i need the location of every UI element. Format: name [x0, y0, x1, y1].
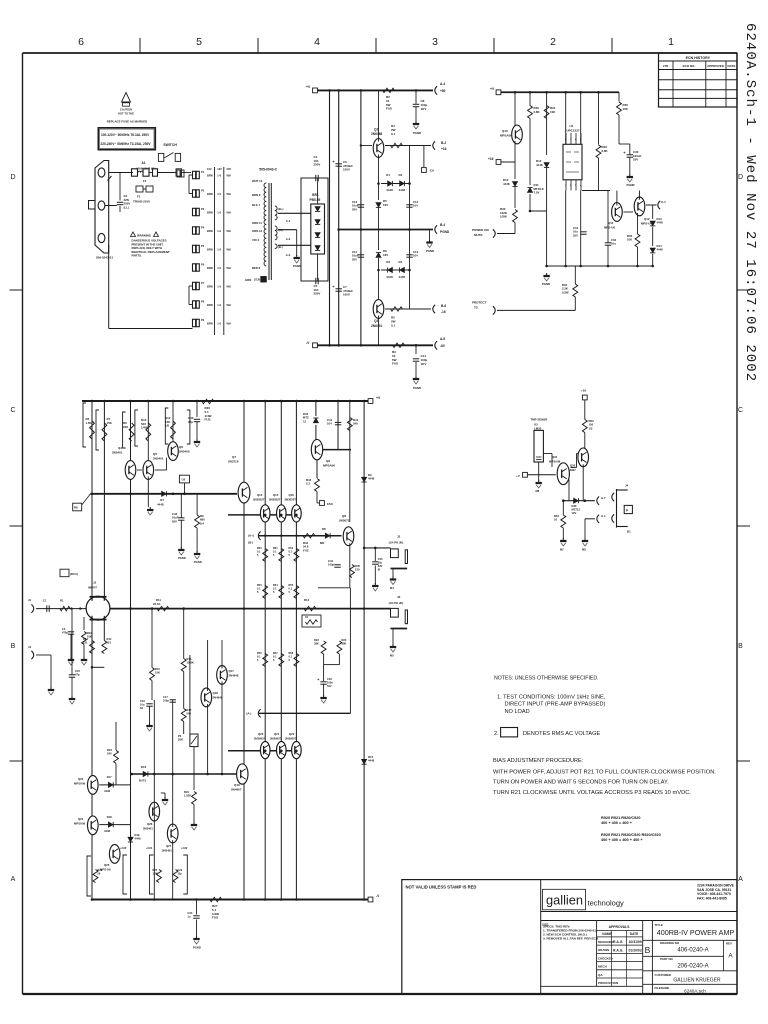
svg-text:TITLE: TITLE	[655, 923, 663, 927]
svg-text:WH: WH	[227, 322, 231, 326]
svg-text:2N4948: 2N4948	[229, 674, 239, 678]
svg-text:250V: 250V	[314, 163, 321, 167]
svg-text:D16: D16	[141, 765, 147, 769]
svg-text:M6: M6	[536, 489, 540, 493]
svg-text:BRN: BRN	[207, 229, 213, 233]
svg-text:+16: +16	[441, 147, 447, 151]
svg-text:1-0: 1-0	[217, 285, 221, 289]
svg-text:BRN: BRN	[207, 285, 213, 289]
svg-text:Q19: Q19	[234, 783, 240, 787]
svg-text:01/20/02: 01/20/02	[629, 948, 642, 952]
svg-text:APPROVALS: APPROVALS	[609, 925, 631, 929]
svg-text:A-7: A-7	[601, 496, 606, 500]
svg-text:R14: R14	[107, 637, 112, 641]
svg-text:M8: M8	[582, 548, 586, 552]
svg-text:R23: R23	[342, 638, 347, 642]
svg-text:D3: D3	[386, 260, 390, 264]
svg-text:1.5K: 1.5K	[86, 421, 93, 425]
svg-text:WH: WH	[227, 248, 231, 252]
svg-text:39K: 39K	[314, 642, 319, 646]
svg-text:R8: R8	[74, 506, 78, 510]
svg-text:4448: 4448	[399, 188, 406, 192]
svg-text:(B-): (B-)	[248, 541, 253, 545]
svg-text:(1/4 PH JK): (1/4 PH JK)	[389, 601, 404, 605]
svg-text:C24: C24	[187, 911, 192, 915]
svg-text:2.2: 2.2	[306, 482, 310, 486]
svg-text:100V: 100V	[343, 293, 350, 297]
svg-text:D18: D18	[107, 815, 112, 819]
svg-text:BRN: BRN	[207, 322, 213, 326]
svg-text:104: 104	[327, 422, 332, 426]
svg-text:400 + 400 = 400 +: 400 + 400 = 400 +	[601, 821, 633, 825]
svg-text:1u: 1u	[187, 915, 190, 919]
svg-text:A-6: A-6	[440, 337, 445, 341]
svg-text:MPSA06: MPSA06	[549, 460, 561, 464]
svg-text:2N3055T: 2N3055T	[285, 498, 297, 502]
svg-text:gallien: gallien	[546, 893, 583, 908]
svg-text:4448: 4448	[657, 221, 664, 225]
svg-text:M7: M7	[560, 548, 564, 552]
svg-text:WITH POWER OFF, ADJUST POT R21: WITH POWER OFF, ADJUST POT R21 TO FULL C…	[493, 769, 716, 775]
svg-text:BRN 9: BRN 9	[252, 193, 261, 197]
svg-text:1. TEST CONDITIONS: 100mV 1kH: 1. TEST CONDITIONS: 100mV 1kHz SINE,	[497, 694, 606, 700]
svg-text:Q9: Q9	[326, 459, 330, 463]
svg-text:10/31/99: 10/31/99	[629, 940, 642, 944]
svg-text:R21: R21	[184, 790, 189, 794]
svg-text:2N5401: 2N5401	[153, 457, 164, 461]
svg-text:(LL): (LL)	[124, 205, 129, 209]
svg-text:240: 240	[107, 752, 112, 756]
svg-text:1.2K: 1.2K	[153, 872, 158, 875]
svg-text:D7: D7	[160, 498, 164, 502]
svg-text:BRN: BRN	[207, 303, 213, 307]
svg-text:D1: D1	[386, 173, 390, 177]
svg-text:R.A.G.: R.A.G.	[613, 948, 623, 952]
svg-text:1KV: 1KV	[421, 107, 427, 111]
svg-text:4448: 4448	[386, 275, 393, 279]
svg-text:UPC1237: UPC1237	[567, 129, 580, 133]
svg-text:LTR: LTR	[663, 64, 669, 68]
svg-text:DATE: DATE	[630, 932, 638, 936]
svg-text:R1: R1	[60, 599, 64, 603]
svg-text:C9: C9	[430, 169, 434, 173]
svg-text:INPUT: INPUT	[88, 586, 97, 590]
svg-text:WH: WH	[227, 192, 231, 196]
svg-text:DIRECT INPUT (PRE-AMP BYPASSED: DIRECT INPUT (PRE-AMP BYPASSED)	[505, 702, 606, 708]
svg-text:R920 R921 R920/C920 R920: R920 R921 R920/C920 R920/C920	[601, 833, 661, 837]
svg-text:2N2955T: 2N2955T	[270, 737, 282, 741]
svg-text:+V: +V	[306, 85, 311, 89]
svg-text:POWER ON: POWER ON	[472, 228, 489, 232]
svg-text:DRAWN: DRAWN	[598, 948, 609, 952]
svg-text:WH: WH	[227, 174, 231, 178]
svg-text:P3: P3	[178, 734, 182, 738]
svg-text:4448: 4448	[157, 503, 164, 507]
svg-text:R920 R921 R920/C920: R920 R921 R920/C920	[601, 816, 640, 820]
svg-text:PART NO: PART NO	[660, 957, 674, 961]
svg-text:Q2: Q2	[374, 128, 378, 132]
svg-text:4448: 4448	[368, 759, 375, 763]
svg-text:P2: P2	[201, 189, 205, 193]
svg-text:Q23: Q23	[78, 777, 84, 781]
svg-text:+C22: +C22	[181, 846, 188, 850]
svg-text:4448: 4448	[104, 789, 110, 793]
svg-text:63V: 63V	[378, 564, 383, 568]
svg-text:400RB-IV POWER AMP: 400RB-IV POWER AMP	[657, 928, 735, 937]
svg-text:PGND: PGND	[440, 230, 450, 234]
svg-text:39K: 39K	[342, 642, 347, 646]
svg-text:MPSU06: MPSU06	[74, 782, 86, 786]
svg-text:P8: P8	[201, 300, 205, 304]
svg-text:500: 500	[187, 712, 192, 716]
svg-text:D: D	[10, 174, 15, 181]
svg-text:A: A	[738, 876, 743, 883]
svg-text:RED 8: RED 8	[252, 266, 261, 270]
svg-text:4448: 4448	[104, 829, 110, 833]
svg-text:WH: WH	[227, 211, 231, 215]
svg-text:25V: 25V	[633, 158, 638, 162]
svg-text:D2: D2	[399, 173, 403, 177]
svg-text:NO LOAD: NO LOAD	[505, 709, 530, 715]
svg-text:10: 10	[554, 518, 558, 522]
svg-text:R17: R17	[187, 708, 192, 712]
svg-text:15K: 15K	[107, 421, 113, 425]
svg-text:(1/4 PH JK): (1/4 PH JK)	[389, 541, 404, 545]
svg-text:A-3: A-3	[286, 253, 291, 257]
svg-text:APPROVED: APPROVED	[707, 64, 725, 68]
svg-text:0.1: 0.1	[391, 132, 396, 136]
svg-text:D17: D17	[107, 775, 112, 779]
svg-text:6240A.sch: 6240A.sch	[684, 988, 706, 993]
svg-text:1.52K: 1.52K	[184, 794, 191, 798]
svg-text:3. REMOVED ALL FAN REF. PER EC: 3. REMOVED ALL FAN REF. PER ECN	[543, 937, 599, 941]
svg-text:J4: J4	[625, 484, 629, 488]
svg-text:A-1: A-1	[601, 514, 606, 518]
svg-text:BRN: BRN	[207, 211, 213, 215]
svg-text:1KV: 1KV	[421, 362, 427, 366]
svg-text:B-2: B-2	[441, 141, 446, 145]
svg-text:47p: 47p	[75, 673, 80, 677]
svg-text:B: B	[645, 945, 651, 955]
svg-text:WH: WH	[227, 303, 231, 307]
svg-text:P6: P6	[201, 263, 205, 267]
svg-text:R16: R16	[187, 657, 192, 661]
svg-text:2N5400: 2N5400	[179, 450, 190, 454]
svg-text:BV73: BV73	[139, 779, 146, 783]
svg-text:2N3055T: 2N3055T	[253, 498, 265, 502]
svg-text:Q11: Q11	[608, 221, 614, 225]
svg-text:GRN: GRN	[245, 278, 251, 282]
svg-text:J1: J1	[28, 598, 32, 602]
svg-text:P9: P9	[201, 318, 205, 322]
svg-text:400 + 400 = 400 + 400 +: 400 + 400 = 400 + 400 +	[601, 838, 643, 842]
svg-text:100-120V~ 50/60Hz T6.3AL 250V: 100-120V~ 50/60Hz T6.3AL 250V	[101, 133, 150, 137]
svg-text:B1: B1	[627, 530, 631, 534]
svg-text:F: F	[626, 508, 628, 512]
svg-text:1-0: 1-0	[217, 229, 221, 233]
svg-text:U2: U2	[182, 478, 186, 482]
svg-text:TURN R21 CLOCKWISE UNTIL VOLTA: TURN R21 CLOCKWISE UNTIL VOLTAGE ACCROSS…	[493, 790, 691, 796]
svg-text:+V: +V	[376, 396, 381, 400]
svg-text:63V: 63V	[172, 519, 177, 523]
svg-text:4: 4	[314, 36, 320, 48]
svg-text:5: 5	[196, 36, 202, 48]
svg-text:C: C	[10, 407, 15, 414]
svg-text:16V: 16V	[383, 253, 388, 257]
svg-text:D8: D8	[322, 527, 326, 531]
svg-text:B-6: B-6	[441, 304, 446, 308]
svg-text:+C20: +C20	[120, 846, 127, 850]
svg-text:C17: C17	[163, 695, 168, 699]
svg-text:2: 2	[550, 36, 556, 48]
svg-text:10K: 10K	[550, 110, 556, 114]
svg-text:104: 104	[413, 254, 418, 258]
svg-text:REPLACE FUSE AS MARKED: REPLACE FUSE AS MARKED	[107, 120, 148, 124]
svg-text:Q21: Q21	[274, 732, 280, 736]
svg-text:R12: R12	[304, 598, 310, 602]
svg-text:PGND: PGND	[193, 946, 201, 950]
svg-text:GALLIEN KRUEGER: GALLIEN KRUEGER	[673, 978, 721, 984]
svg-text:4448: 4448	[536, 163, 543, 167]
svg-text:F1: F1	[143, 179, 147, 183]
svg-text:M4: M4	[390, 586, 394, 590]
svg-text:+80: +80	[440, 89, 446, 93]
svg-text:10: 10	[305, 615, 309, 619]
svg-text:R.A.G.: R.A.G.	[613, 940, 623, 944]
svg-text:HOT TO THE: HOT TO THE	[118, 112, 134, 116]
svg-text:REV: REV	[726, 942, 732, 946]
svg-text:1/4: 1/4	[200, 521, 204, 525]
svg-text:BRN: BRN	[207, 174, 213, 178]
svg-text:F1: F1	[137, 195, 141, 199]
svg-text:NAME: NAME	[602, 932, 611, 936]
svg-text:1/2: 1/2	[589, 426, 593, 430]
svg-text:PARTS.: PARTS.	[132, 254, 143, 258]
svg-text:3: 3	[432, 36, 438, 48]
svg-text:C16: C16	[140, 699, 145, 703]
svg-text:P7: P7	[201, 281, 205, 285]
svg-text:Q18: Q18	[213, 691, 219, 695]
svg-text:16V: 16V	[383, 203, 388, 207]
svg-text:PGND: PGND	[293, 264, 301, 268]
svg-text:SWITCH: SWITCH	[163, 143, 177, 147]
svg-text:U1: U1	[570, 124, 574, 128]
svg-text:PGND: PGND	[542, 282, 550, 286]
svg-text:SCN: SCN	[254, 278, 260, 282]
svg-text:6.8K: 6.8K	[534, 110, 541, 114]
svg-text:470p: 470p	[62, 631, 68, 635]
svg-text:12V: 12V	[217, 167, 222, 171]
svg-text:2N6491: 2N6491	[371, 324, 382, 328]
svg-text:6: 6	[78, 36, 84, 48]
svg-text:209-0243-01: 209-0243-01	[96, 256, 113, 260]
svg-text:WHT 10: WHT 10	[252, 179, 263, 183]
svg-text:DENOTES RMS AC VOLTAGE: DENOTES RMS AC VOLTAGE	[523, 731, 600, 737]
svg-text:+16: +16	[488, 157, 494, 161]
svg-text:206-0240-A: 206-0240-A	[677, 964, 708, 970]
svg-text:10u: 10u	[140, 703, 145, 707]
svg-text:2N5401: 2N5401	[143, 827, 153, 831]
svg-text:100p: 100p	[328, 563, 334, 567]
svg-text:PGND: PGND	[413, 386, 421, 390]
svg-text:6.8K: 6.8K	[602, 149, 609, 153]
svg-text:-(B+): -(B+)	[277, 207, 284, 211]
svg-text:0.1: 0.1	[391, 323, 396, 327]
svg-text:BRN: BRN	[207, 248, 213, 252]
svg-text:Q24: Q24	[78, 817, 84, 821]
svg-text:25K: 25K	[178, 738, 183, 742]
svg-text:PB5-05: PB5-05	[310, 198, 321, 202]
svg-text:D19: D19	[135, 833, 140, 837]
svg-text:4448: 4448	[399, 275, 406, 279]
svg-text:D30: D30	[572, 504, 577, 508]
svg-text:PRODUCTION: PRODUCTION	[598, 981, 618, 985]
svg-text:C1: C1	[43, 599, 47, 603]
svg-text:1-0: 1-0	[217, 192, 221, 196]
svg-text:Q6: Q6	[179, 445, 183, 449]
svg-text:Q5: Q5	[153, 452, 157, 456]
svg-text:M: M	[378, 568, 380, 572]
svg-text:221: 221	[83, 641, 88, 645]
svg-text:2N3716: 2N3716	[228, 460, 239, 464]
svg-text:Q7: Q7	[232, 455, 236, 459]
svg-text:P5: P5	[201, 244, 205, 248]
svg-text:Q8: Q8	[342, 514, 346, 518]
svg-text:Q30: Q30	[570, 464, 576, 468]
svg-text:505-0043-C: 505-0043-C	[259, 168, 277, 172]
svg-text:WARNING: WARNING	[137, 233, 152, 237]
svg-text:DATE: DATE	[728, 64, 736, 68]
svg-text:1: 1	[668, 36, 674, 48]
svg-text:1-0: 1-0	[217, 322, 221, 326]
svg-text:10u: 10u	[611, 242, 616, 246]
svg-text:Q17: Q17	[229, 669, 235, 673]
svg-text:MPSU56: MPSU56	[74, 822, 86, 826]
svg-text:Q27: Q27	[166, 844, 172, 848]
svg-text:B: B	[738, 643, 743, 650]
svg-text:Q4: Q4	[118, 446, 122, 450]
svg-text:10K: 10K	[627, 238, 632, 242]
svg-text:Q14: Q14	[257, 493, 263, 497]
svg-text:PGND: PGND	[426, 249, 434, 253]
svg-text:120: 120	[355, 568, 360, 572]
svg-text:FAN: FAN	[327, 502, 333, 506]
svg-text:SIZE: SIZE	[542, 923, 548, 927]
svg-text:10V: 10V	[207, 167, 212, 171]
svg-text:R10: R10	[87, 631, 92, 635]
svg-text:33p: 33p	[178, 872, 183, 875]
svg-text:1/2W: 1/2W	[500, 215, 507, 219]
svg-text:WH: WH	[227, 285, 231, 289]
svg-text:C18: C18	[327, 677, 332, 681]
svg-text:TMP SENSR: TMP SENSR	[531, 418, 549, 422]
svg-text:C45: C45	[378, 557, 383, 561]
svg-text:PGND: PGND	[194, 560, 202, 564]
svg-text:+16: +16	[581, 389, 586, 393]
svg-text:4448: 4448	[368, 477, 375, 481]
svg-text:6240A.Sch-1 - Wed Nov 27 16:07: 6240A.Sch-1 - Wed Nov 27 16:07:06 2002	[742, 23, 758, 382]
svg-text:P1: P1	[201, 170, 205, 174]
svg-text:FILENAME: FILENAME	[655, 986, 670, 990]
svg-text:A: A	[11, 876, 16, 883]
svg-text:12: 12	[303, 419, 307, 423]
svg-text:B-4: B-4	[440, 223, 445, 227]
svg-text:100u: 100u	[327, 681, 333, 685]
svg-text:MPSA06: MPSA06	[323, 464, 335, 468]
svg-text:R45: R45	[355, 564, 360, 568]
svg-text:4448: 4448	[657, 248, 664, 252]
svg-text:1-0: 1-0	[217, 266, 221, 270]
svg-text:22p: 22p	[188, 420, 193, 424]
svg-text:1-0: 1-0	[217, 303, 221, 307]
svg-text:+V: +V	[490, 87, 495, 91]
svg-text:100p: 100p	[163, 699, 169, 703]
svg-text:NOTES: UNLESS OTHERWISE SPECIF: NOTES: UNLESS OTHERWISE SPECIFIED.	[494, 675, 599, 681]
svg-text:A-1: A-1	[286, 219, 291, 223]
svg-text:WH: WH	[227, 229, 231, 233]
svg-text:4448: 4448	[386, 188, 393, 192]
svg-text:2N5401: 2N5401	[112, 451, 123, 455]
svg-text:2.: 2.	[494, 731, 499, 737]
svg-text:ECN HISTORY: ECN HISTORY	[686, 56, 711, 60]
svg-text:M5: M5	[390, 654, 394, 658]
svg-text:MPSA56: MPSA56	[500, 134, 512, 138]
svg-text:2N5401: 2N5401	[162, 849, 172, 853]
svg-text:Q25: Q25	[104, 863, 110, 867]
svg-text:BIAS ADJUSTMENT PROCEDURE:: BIAS ADJUSTMENT PROCEDURE:	[493, 758, 584, 764]
svg-text:A: A	[728, 953, 733, 960]
svg-text:22K: 22K	[123, 425, 129, 429]
svg-text:PGND: PGND	[627, 183, 635, 187]
svg-text:J3: J3	[397, 595, 401, 599]
svg-text:1/2W: 1/2W	[562, 290, 569, 294]
svg-text:+V: +V	[516, 474, 520, 478]
svg-text:2N3055T: 2N3055T	[269, 498, 281, 502]
svg-text:240: 240	[353, 422, 358, 426]
svg-text:A1: A1	[142, 161, 146, 165]
svg-text:Q26: Q26	[147, 822, 153, 826]
svg-text:FUS: FUS	[392, 362, 398, 366]
svg-text:D4: D4	[399, 260, 403, 264]
svg-text:PGND: PGND	[413, 131, 421, 135]
svg-text:15K: 15K	[155, 671, 160, 675]
svg-text:FUS: FUS	[205, 418, 211, 422]
svg-text:250V: 250V	[314, 292, 321, 296]
svg-text:A-4: A-4	[440, 82, 445, 86]
svg-text:ORN 11: ORN 11	[252, 221, 262, 225]
svg-text:C: C	[738, 407, 743, 414]
svg-text:Q16: Q16	[289, 493, 295, 497]
svg-text:1-0: 1-0	[217, 174, 221, 178]
svg-text:220-240V~ 50/60Hz T3.15AL 250V: 220-240V~ 50/60Hz T3.15AL 250V	[101, 142, 152, 146]
svg-text:R22: R22	[314, 638, 319, 642]
svg-text:10K: 10K	[623, 107, 629, 111]
svg-text:ECO NO.: ECO NO.	[683, 64, 696, 68]
svg-text:R13: R13	[83, 637, 88, 641]
svg-text:J1: J1	[28, 645, 32, 649]
svg-text:2N4948: 2N4948	[213, 696, 223, 700]
svg-text:C3: C3	[62, 627, 66, 631]
svg-text:TRIAD-251V: TRIAD-251V	[133, 200, 150, 204]
svg-text:2N2955T: 2N2955T	[285, 737, 297, 741]
svg-text:221: 221	[107, 641, 112, 645]
svg-text:-80: -80	[440, 344, 445, 348]
svg-text:C15: C15	[75, 669, 80, 673]
svg-text:Q3: Q3	[374, 319, 378, 323]
svg-text:7.5V: 7.5V	[534, 191, 540, 195]
svg-text:50V: 50V	[327, 684, 332, 688]
svg-text:1/4W: 1/4W	[141, 426, 148, 430]
